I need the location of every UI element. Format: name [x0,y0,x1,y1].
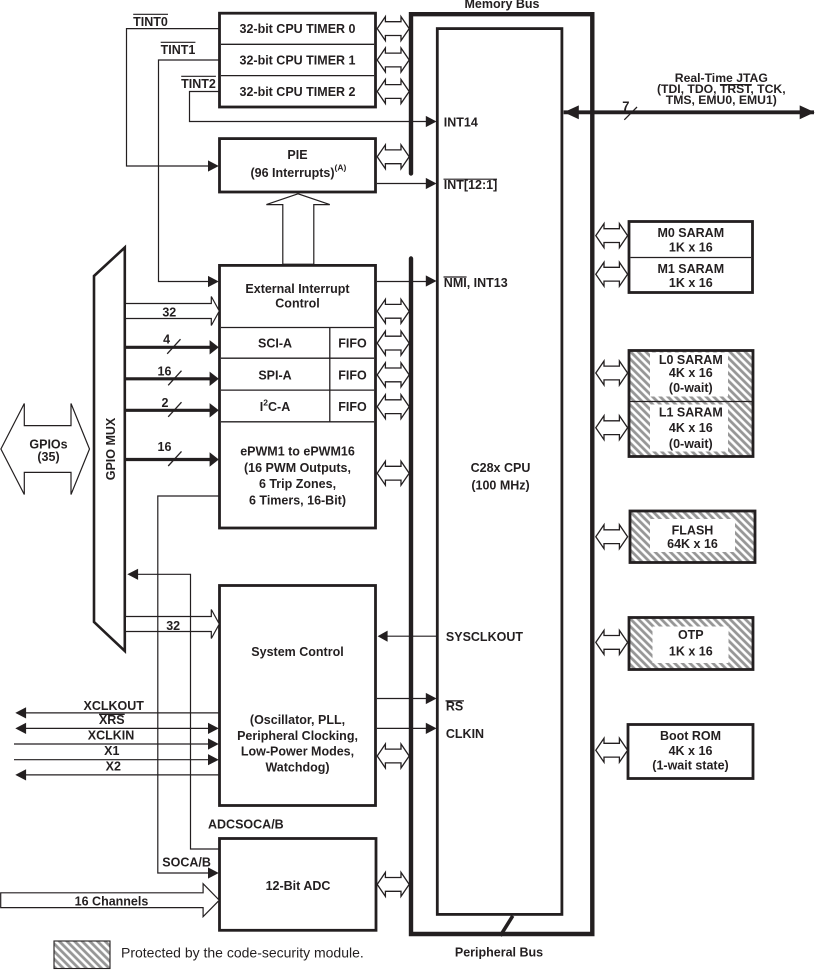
bus arrow TIMER0 [377,17,409,41]
svg-text:Low-Power Modes,: Low-Power Modes, [241,745,354,759]
label Memory Bus [464,0,539,11]
block L0/L1 SARAM hatched box [629,351,753,457]
label Boot ROM 4K x 16 (1-wait state) [652,729,728,773]
svg-text:Boot ROM: Boot ROM [660,729,721,743]
svg-text:32: 32 [162,305,176,319]
wire X1 [14,754,219,765]
mask white text area L0 [650,353,728,397]
label Real-Time JTAG block with TRST overline [657,71,786,107]
bus arrow ADC [377,872,409,896]
block 12-Bit ADC box [220,839,377,931]
svg-text:SYSCLKOUT: SYSCLKOUT [446,630,523,644]
block FLASH hatched box [630,511,755,563]
svg-text:C28x CPU: C28x CPU [471,461,531,475]
label oscillator details [237,713,358,774]
svg-text:16: 16 [158,440,172,454]
wire RS (System Control to CPU) [377,693,437,704]
block C28x CPU box [437,29,562,915]
label L1 SARAM 4K x 16 (0-wait) [659,405,723,451]
svg-text:4: 4 [163,333,170,347]
svg-text:TINT1: TINT1 [161,43,196,57]
label ADCSOCA/B [208,818,284,832]
block Boot ROM box [628,725,753,779]
wire XCLKOUT [15,707,219,718]
label X2 [106,760,121,774]
svg-text:XCLKOUT: XCLKOUT [83,699,144,713]
label FIFO (SCI) [338,337,367,351]
port GPIOs (35) big double arrow [1,404,90,495]
svg-text:PIE: PIE [287,148,307,162]
svg-text:1K x 16: 1K x 16 [669,644,713,658]
svg-text:L1 SARAM: L1 SARAM [659,405,723,419]
svg-text:TINT2: TINT2 [181,77,216,91]
label SOCA/B [162,856,211,870]
svg-text:32-bit CPU TIMER 0: 32-bit CPU TIMER 0 [240,22,356,36]
label M0 SARAM 1K x 16 [657,226,724,254]
wire CLKIN (System Control to CPU) [377,723,437,734]
svg-text:M1 SARAM: M1 SARAM [657,262,724,276]
bus arrow SCI-A [377,331,409,355]
block OTP hatched box [629,618,753,670]
bus arrow L1 SARAM [596,416,628,440]
bus arrow M0 SARAM [596,224,628,248]
svg-text:FIFO: FIFO [338,368,367,382]
svg-text:(96 Interrupts): (96 Interrupts) [250,166,334,180]
label OTP 1K x 16 [669,628,713,659]
bus arrow SPI-A [377,363,409,387]
wire INT[12:1] (PIE to CPU) [377,178,437,189]
bus arrow FLASH [596,525,628,549]
legend hatched swatch [54,941,110,969]
svg-text:1K x 16: 1K x 16 [669,241,713,255]
wire X2 [15,769,219,780]
svg-text:(Oscillator, PLL,: (Oscillator, PLL, [250,713,345,727]
bus arrow PIE [377,145,409,169]
divider M0/M1 [631,257,752,259]
label System Control [251,645,343,659]
label SPI-A [258,368,291,382]
divider below external interrupt control [221,327,374,329]
wire SOCA/B (ePWM to ADC) [158,496,220,879]
svg-text:(0-wait): (0-wait) [669,381,713,395]
legend text Protected by the code-security module. [121,945,364,961]
bus arrow TIMER1 [377,48,409,72]
bus arrow M1 SARAM [596,262,628,286]
svg-text:16 Channels: 16 Channels [75,894,149,908]
svg-text:(100 MHz): (100 MHz) [471,479,529,493]
svg-text:External Interrupt: External Interrupt [245,282,350,296]
label TINT1 with overline [161,42,196,57]
svg-text:(A): (A) [335,163,347,173]
label FLASH 64K x 16 [667,524,718,551]
svg-text:32-bit CPU TIMER 1: 32-bit CPU TIMER 1 [240,54,356,68]
wire SYSCLKOUT (CPU to System Control) [378,631,437,642]
wire XRS (bidirectional) [15,723,219,734]
wire NMI INT13 (external interrupt control to CPU) [377,275,437,286]
bus arrow System Control [377,744,409,768]
bus arrow TIMER2 [377,80,409,104]
bus arrow Boot ROM [596,738,628,762]
wire Real-Time JTAG bidirectional thick line with 7-bit slash [564,98,815,120]
svg-text:FLASH: FLASH [672,524,714,538]
svg-text:Peripheral Clocking,: Peripheral Clocking, [237,729,358,743]
label C28x CPU (100 MHz) [471,461,531,493]
block PIE box [220,139,376,192]
arrow PIE big hollow up-arrow from external interrupt control [266,194,329,264]
svg-text:12-Bit ADC: 12-Bit ADC [266,879,331,893]
svg-text:FIFO: FIFO [338,337,367,351]
divider below SCI-A [221,357,374,359]
svg-text:(35): (35) [37,450,59,464]
svg-text:X1: X1 [104,744,119,758]
svg-text:SOCA/B: SOCA/B [162,856,211,870]
svg-text:1K x 16: 1K x 16 [669,276,713,290]
svg-text:FIFO: FIFO [338,400,367,414]
arrow 32 (GPIO mux to external interrupt control) hollow with label [126,297,219,326]
arrow 16 (to ePWM) thick with slash [126,440,219,467]
svg-text:4K x 16: 4K x 16 [669,421,713,435]
mask white text area L1 [650,405,728,452]
label XCLKIN [88,729,135,743]
arrow 4 (to SCI-A) thick with slash [126,333,219,355]
svg-text:XCLKIN: XCLKIN [88,729,135,743]
label PIE [287,148,307,162]
block 32-bit CPU timers outer box [220,13,376,107]
pin label SYSCLKOUT [446,630,523,644]
label TINT2 with overline [181,76,216,91]
arrow 32 (GPIO mux to System Control) hollow with label [126,610,219,639]
label ePWM1 to ePWM16 block text [240,445,355,508]
svg-text:Watchdog): Watchdog) [265,760,329,774]
label 32-bit CPU TIMER 1 [240,54,356,68]
svg-text:TINT0: TINT0 [133,15,168,29]
wire ADCSOCA/B (ADC to GPIO mux) [127,569,219,849]
pin label NMI, INT13 with overline on NMI [444,276,508,290]
label Peripheral Bus [455,946,543,960]
wire TINT0 (timer0 to PIE) [127,29,220,172]
mask white text area OTP [653,627,729,664]
label 32-bit CPU TIMER 2 [240,85,356,99]
mask white text area FLASH [650,519,735,552]
wire memory-bus (top + left vertical upper segment + right vertical + bottom peripheral segment) [411,14,592,934]
svg-text:System Control: System Control [251,645,343,659]
label TINT0 with overline [133,14,168,29]
divider below I2C-A [221,421,374,423]
bus arrow external-interrupt row [377,299,409,323]
svg-text:SPI-A: SPI-A [258,368,291,382]
svg-text:INT[12:1]: INT[12:1] [444,178,497,192]
bus arrow ePWM [377,461,409,485]
arrow 2 (to I2C-A) thick with slash [126,396,219,417]
wire peripheral-bus diagonal tap to CPU [500,916,513,936]
svg-text:32: 32 [166,619,180,633]
svg-text:32-bit CPU TIMER 2: 32-bit CPU TIMER 2 [240,85,356,99]
svg-text:RS: RS [446,700,463,714]
svg-text:16: 16 [158,364,172,378]
svg-text:(1-wait state): (1-wait state) [652,759,728,773]
svg-text:ADCSOCA/B: ADCSOCA/B [208,818,284,832]
block M0/M1 SARAM box [629,222,753,293]
divider timer1/timer2 [221,75,374,77]
label (96 Interrupts)(A) [250,163,346,181]
arrow 16 (to SPI-A) thick with slash [126,364,219,386]
label XCLKOUT [83,699,144,713]
label X1 [104,744,119,758]
svg-text:TMS, EMU0, EMU1): TMS, EMU0, EMU1) [666,93,777,107]
label XRS with overline [99,713,125,727]
pin label INT14 [444,115,478,129]
label FIFO (I2C) [338,400,367,414]
label 32-bit CPU TIMER 0 [240,22,356,36]
svg-text:Memory Bus: Memory Bus [464,0,539,11]
svg-text:NMI, INT13: NMI, INT13 [444,276,508,290]
label GPIO MUX (rotated) [104,417,118,480]
svg-text:INT14: INT14 [444,115,478,129]
svg-text:2: 2 [162,396,169,410]
bus arrow L0 SARAM [596,361,628,385]
wire XCLKIN [14,738,219,749]
svg-text:SCI-A: SCI-A [258,337,292,351]
svg-text:4K x 16: 4K x 16 [669,744,713,758]
block peripherals outer box [220,265,376,528]
divider FIFO column [329,328,331,422]
svg-text:64K x 16: 64K x 16 [667,537,718,551]
label L0 SARAM 4K x 16 (0-wait) [659,353,723,395]
svg-text:6 Trip Zones,: 6 Trip Zones, [259,477,336,491]
svg-text:7: 7 [622,98,629,113]
svg-text:Peripheral Bus: Peripheral Bus [455,946,543,960]
wire TINT2 (timer2 to CPU INT14) [190,92,437,128]
svg-text:ePWM1 to ePWM16: ePWM1 to ePWM16 [240,445,355,459]
svg-text:X2: X2 [106,760,121,774]
svg-text:Protected by the code-security: Protected by the code-security module. [121,945,364,961]
svg-text:6 Timers, 16-Bit): 6 Timers, 16-Bit) [249,494,346,508]
pin label INT[12:1] with overline [444,178,498,192]
pin label CLKIN [446,727,484,741]
svg-text:OTP: OTP [678,628,704,642]
label I2C-A with superscript 2 [260,398,290,415]
svg-text:XRS: XRS [99,713,125,727]
label SCI-A [258,337,292,351]
divider timer0/timer1 [221,43,374,45]
label M1 SARAM 1K x 16 [657,262,724,290]
svg-text:(0-wait): (0-wait) [669,437,713,451]
label External Interrupt Control [245,282,350,310]
svg-text:CLKIN: CLKIN [446,727,484,741]
label GPIOs (35) [29,437,67,464]
block System Control box [220,586,376,806]
svg-text:4K x 16: 4K x 16 [669,366,713,380]
svg-text:(16 PWM Outputs,: (16 PWM Outputs, [244,461,351,475]
svg-text:Control: Control [275,296,319,310]
arrow 16 Channels hollow into ADC [1,884,220,917]
label FIFO (SPI) [338,368,367,382]
wire TINT1 (timer1 to external interrupt control) [159,60,220,287]
bus arrow OTP [596,630,628,654]
pin label RS with overline [446,700,465,714]
svg-text:GPIO MUX: GPIO MUX [104,417,118,480]
divider below SPI-A [221,389,374,391]
svg-text:L0 SARAM: L0 SARAM [659,353,723,367]
block GPIO MUX trapezoid [94,248,125,652]
svg-text:M0 SARAM: M0 SARAM [657,226,724,240]
bus arrow I2C-A [377,395,409,419]
label 12-Bit ADC [266,879,331,893]
